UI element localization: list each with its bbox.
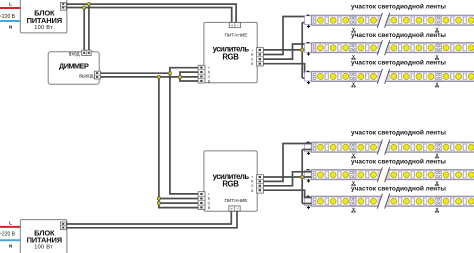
scissors strip6 b: [435, 208, 439, 213]
junction plus feed bottom: [301, 175, 304, 178]
svg-text:RGB: RGB: [222, 180, 239, 189]
wire plus to strip3: [302, 77, 311, 79]
scissors strip3 a: [352, 83, 356, 88]
svg-text:участок светодиодной ленты: участок светодиодной ленты: [351, 2, 446, 10]
junction on PSU1 bottom wire: [83, 6, 86, 9]
svg-text:B: B: [251, 189, 253, 193]
wire PSU2 output bottom to U2 power minus: [66, 211, 237, 228]
junction dimmer minus wire at U1 branches: [178, 75, 181, 78]
wire U2 out pin2 to strip4 minus: [263, 144, 311, 182]
LED strip 4: [305, 140, 474, 155]
svg-text:+: +: [251, 48, 253, 52]
wire L (phase) into PSU1: [0, 7, 20, 9]
wire PSU1 output bottom to amplifier U1 power plus: [66, 8, 231, 24]
connector U2 power (ПИТАНИЕ): [229, 206, 240, 211]
wire plus to strip4: [302, 149, 311, 151]
svg-text:ПИТАНИЕ: ПИТАНИЕ: [225, 32, 248, 38]
svg-text:L: L: [9, 1, 12, 6]
svg-text:ПИТАНИЯ: ПИТАНИЯ: [27, 16, 62, 25]
scissors strip1 a: [352, 28, 356, 33]
wire dimmer output plus (top): [101, 72, 170, 74]
scissors strip6 a: [352, 208, 356, 213]
scissors strip5 b: [435, 181, 439, 186]
junction on PSU1 top wire: [87, 2, 90, 5]
wire U1 out pin1 plus feed to strip2: [263, 49, 311, 51]
svg-text:участок светодиодной ленты: участок светодиодной ленты: [351, 157, 446, 165]
junction U2 input pin3 branch: [157, 201, 160, 204]
connector J1 on PSU1 output: [61, 2, 67, 10]
connector dimmer input (вход): [82, 50, 91, 55]
wire U2 out pin3 to strip5 minus: [263, 172, 311, 186]
svg-text:L: L: [9, 220, 12, 225]
svg-text:участок светодиодной ленты: участок светодиодной ленты: [351, 59, 446, 67]
svg-text:B: B: [208, 80, 210, 84]
svg-text:+: +: [208, 66, 210, 70]
junction dimmer minus wire at drop: [157, 75, 160, 78]
scissors strip1 b: [435, 28, 439, 33]
wire U2 out pin1 plus feed to strip5: [263, 176, 311, 178]
amplifier U2 (усилитель RGB): [204, 151, 257, 211]
power supply PSU1 (БЛОК ПИТАНИЯ 100 Вт): [20, 0, 67, 33]
svg-text:N: N: [9, 25, 13, 30]
svg-text:участок светодиодной ленты: участок светодиодной ленты: [351, 185, 446, 193]
LED strip 5: [305, 167, 474, 182]
connector dimmer output (выход): [94, 71, 100, 79]
dimmer D1 (ДИММЕР): [48, 51, 99, 84]
svg-text:выход: выход: [79, 74, 93, 80]
connector U1 output (4 pin): [257, 48, 264, 66]
wire dimmer output minus (bottom): [101, 76, 180, 78]
wire minus branch to U2 input pin 2: [159, 198, 199, 200]
junction plus feed top: [301, 48, 304, 51]
wire plus jog up to U1 input pin 1: [170, 68, 199, 74]
svg-text:~220 В: ~220 В: [0, 232, 16, 238]
svg-text:RGB: RGB: [222, 52, 239, 61]
scissors strip4 b: [435, 154, 439, 159]
svg-text:B: B: [251, 62, 253, 66]
wire N (neutral) into PSU2: [0, 239, 20, 241]
svg-text:~220 В: ~220 В: [0, 14, 16, 20]
scissors strip5 a: [352, 181, 356, 186]
scissors strip2 a: [352, 55, 356, 60]
wire plus long drop to U2 input pin 1: [170, 73, 199, 194]
connector U1 power (ПИТАНИЕ): [229, 23, 240, 28]
wire plus to strip6: [302, 203, 311, 205]
LED strip 3: [305, 69, 474, 84]
wire minus straight to U1 input pin 3: [180, 76, 199, 78]
wire U1 out pin2 to strip1 minus: [263, 17, 311, 55]
connector U2 output (4 pin): [257, 175, 264, 193]
scissors strip2 b: [435, 55, 439, 60]
wire minus branch up to U1 input pin 2: [180, 72, 199, 77]
amplifier U1 (усилитель RGB): [204, 22, 257, 83]
wire PSU1 output top to amplifier U1 power minus: [66, 4, 236, 23]
power supply PSU2 (БЛОК ПИТАНИЯ 100 Вт): [20, 220, 67, 253]
wire U1 out pin3 to strip2 minus: [263, 44, 311, 59]
svg-text:ДИММЕР: ДИММЕР: [59, 62, 89, 71]
junction U2 input pin2 branch: [157, 197, 160, 200]
svg-text:ПИТАНИЕ: ПИТАНИЕ: [225, 198, 248, 204]
wire plus distribution vertical (bottom strips): [301, 150, 303, 204]
wire U2 out pin4 to strip6 minus: [263, 190, 311, 197]
wire L (phase) into PSU2: [0, 226, 20, 228]
svg-text:100 Вт: 100 Вт: [34, 245, 53, 251]
svg-text:вход: вход: [69, 51, 80, 57]
junction dimmer plus wire: [168, 72, 171, 75]
svg-text:100 Вт: 100 Вт: [34, 25, 53, 31]
scissors strip3 b: [435, 83, 439, 88]
wire drop to dimmer input pin 2: [88, 4, 90, 50]
wire minus long drop to U2 input pin 4: [159, 77, 199, 208]
connector U1 input (4 pin): [198, 65, 205, 83]
wire minus branch to U2 input pin 3: [159, 202, 199, 204]
LED strip 6: [305, 194, 474, 209]
svg-text:N: N: [9, 244, 13, 249]
svg-text:ПИТАНИЯ: ПИТАНИЯ: [27, 236, 62, 245]
scissors strip4 a: [352, 154, 356, 159]
LED strip 1: [305, 13, 474, 28]
connector U2 input (4 pin): [198, 192, 205, 210]
svg-text:+: +: [208, 192, 210, 196]
wire PSU2 output top to U2 power plus: [66, 211, 231, 224]
wire U1 out pin4 to strip3 minus: [263, 64, 311, 73]
svg-text:участок светодиодной ленты: участок светодиодной ленты: [351, 128, 446, 136]
wire N (neutral) into PSU1: [0, 20, 20, 22]
wire minus branch down to U1 input pin 4: [180, 77, 199, 81]
wire drop to dimmer input pin 1: [83, 8, 85, 51]
svg-text:+: +: [251, 175, 253, 179]
wire plus distribution vertical (top strips): [301, 23, 303, 79]
svg-text:B: B: [208, 206, 210, 210]
svg-text:участок светодиодной ленты: участок светодиодной ленты: [351, 31, 446, 39]
wire plus to strip1: [302, 22, 311, 24]
connector J2 on PSU2 output: [61, 222, 67, 230]
LED strip 2: [305, 40, 474, 55]
